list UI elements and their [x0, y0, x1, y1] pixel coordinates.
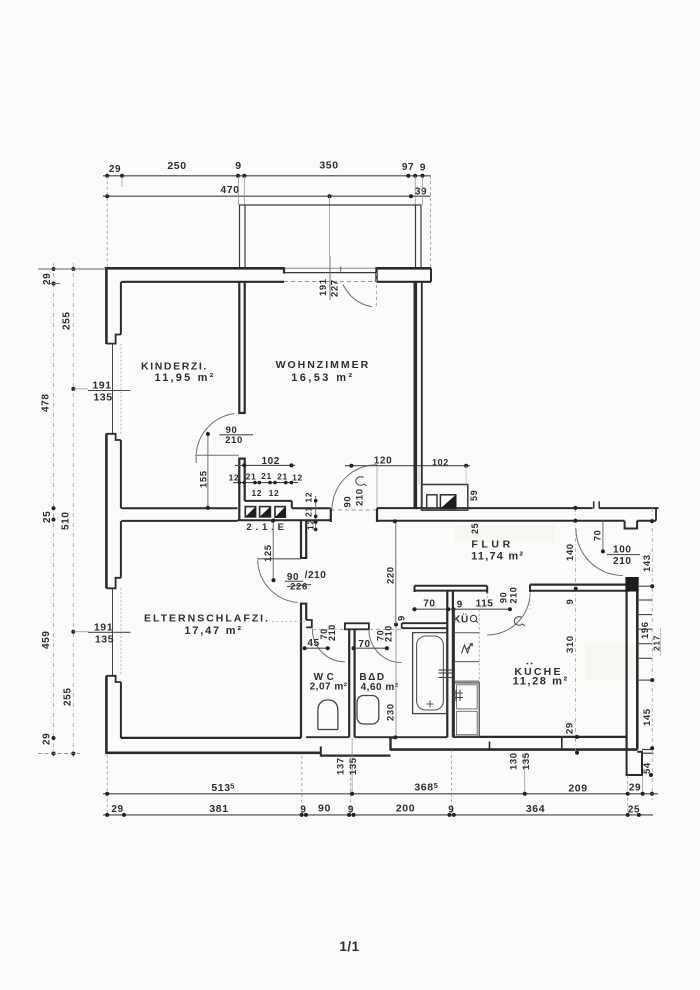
svg-text:70: 70 — [423, 599, 435, 610]
kitchen stove symbol — [462, 645, 471, 654]
bad door swing arc — [369, 630, 402, 663]
eltern window glass line — [112, 588, 114, 676]
balcony door tick — [340, 267, 342, 272]
balcony door threshold — [284, 272, 377, 274]
svg-text:368: 368 — [414, 782, 433, 794]
svg-text:12: 12 — [251, 488, 262, 498]
interior wall kinderzi-eltern upper line — [121, 507, 237, 509]
svg-text:21: 21 — [261, 471, 272, 481]
wc-bad wall T cap — [345, 623, 369, 629]
svg-text:102: 102 — [261, 456, 280, 467]
svg-text:25: 25 — [42, 511, 53, 523]
flur-kueche nook dim line — [412, 608, 512, 610]
kinderzimmer window bottom sill — [106, 434, 121, 440]
svg-text:2,07 m²: 2,07 m² — [310, 682, 348, 693]
svg-text:FLUR: FLUR — [471, 539, 513, 551]
svg-text:11,74 m²: 11,74 m² — [471, 551, 524, 563]
eltern window top sill — [106, 578, 121, 589]
wc door jamb notch — [306, 620, 312, 627]
kinderzi door dim 755 line — [207, 434, 209, 508]
svg-text:310: 310 — [565, 635, 576, 653]
niche right vertical dim — [315, 496, 317, 531]
bad door dashed — [369, 628, 402, 630]
top wall right end cap — [430, 268, 432, 282]
corridor door handle loop — [356, 477, 367, 486]
flur wall upper piece x377-421 — [377, 507, 593, 509]
svg-text:12: 12 — [292, 473, 303, 483]
flur niche T bar — [415, 585, 488, 587]
eltern door swing arc — [258, 561, 298, 603]
svg-text:25: 25 — [628, 805, 640, 816]
svg-text:WOHNZIMMER: WOHNZIMMER — [276, 359, 371, 371]
entry door dim 70 — [602, 521, 604, 552]
bottom step marks under bad — [389, 737, 397, 739]
svg-text:210: 210 — [613, 556, 632, 567]
svg-text:209: 209 — [568, 783, 587, 795]
shaft box at flur — [422, 485, 468, 511]
eltern door lower jamb and wall — [300, 603, 302, 738]
svg-text:220: 220 — [386, 566, 397, 584]
wc bottom inner line — [306, 736, 349, 738]
eltern door opening leaf — [257, 558, 301, 560]
shaft leader lines — [418, 466, 420, 485]
svg-text:54: 54 — [642, 762, 653, 774]
svg-text:9: 9 — [457, 600, 463, 611]
svg-text:137: 137 — [336, 757, 347, 775]
svg-text:97: 97 — [402, 162, 414, 173]
eltern window inner dotted — [120, 588, 122, 676]
svg-text:115: 115 — [476, 599, 494, 610]
top dim connectors — [106, 176, 108, 268]
svg-text:210: 210 — [327, 624, 337, 641]
svg-text:39: 39 — [415, 187, 427, 198]
flur dim 220 vertical — [395, 521, 397, 624]
wc top wall cap left of door is jamb notch; wc door dashed — [312, 628, 345, 630]
svg-text:21: 21 — [246, 472, 257, 482]
corridor door jambs — [330, 508, 332, 522]
svg-text:90: 90 — [318, 803, 331, 815]
svg-text:11,28 m²: 11,28 m² — [513, 676, 569, 688]
svg-text:70: 70 — [593, 530, 603, 541]
kitchen faucet — [452, 692, 463, 694]
svg-text:5: 5 — [230, 782, 235, 791]
svg-text:12: 12 — [304, 492, 314, 503]
svg-text:12: 12 — [229, 473, 240, 483]
eltern window bottom sill — [106, 676, 121, 682]
bottom wall step at BAD east — [389, 738, 391, 751]
right vertical dim line — [651, 508, 653, 800]
svg-text:135: 135 — [348, 757, 359, 775]
svg-text:250: 250 — [167, 160, 186, 172]
svg-text:21: 21 — [304, 506, 314, 517]
kitchen door swing arc — [487, 593, 530, 636]
wohnzimmer right wall thick line — [413, 282, 417, 508]
svg-text:102: 102 — [432, 458, 449, 468]
svg-text:143: 143 — [642, 554, 653, 572]
svg-text:191: 191 — [92, 380, 111, 392]
kitchen counter left edge — [453, 609, 455, 737]
top exterior wall outer line east — [377, 267, 432, 270]
bad bottom inner line — [355, 736, 448, 738]
svg-text:255: 255 — [62, 312, 73, 331]
svg-text:210: 210 — [509, 587, 519, 604]
svg-text:KINDERZI.: KINDERZI. — [141, 361, 208, 373]
corridor door opening threshold — [331, 509, 377, 511]
wohnzimmer right wall thin line — [421, 282, 423, 508]
balcony top railing — [239, 204, 422, 206]
bathtub outer — [413, 633, 447, 714]
bottom wall step at WC — [320, 747, 322, 757]
svg-text:29: 29 — [109, 164, 121, 175]
corridor door leaf line — [376, 465, 378, 509]
balcony left railing — [239, 205, 241, 268]
svg-text:227: 227 — [330, 279, 341, 297]
balcony door swing arc — [343, 285, 372, 307]
kinderzi door open line — [195, 454, 238, 456]
svg-text:140: 140 — [565, 543, 576, 561]
kitchen wall top pillar — [625, 577, 638, 592]
wc door dim line — [304, 647, 331, 649]
shaft inner white square — [427, 495, 437, 509]
niche lower shelf line — [292, 507, 331, 509]
shaft box 1 — [245, 507, 255, 517]
niche top line — [245, 500, 292, 502]
svg-text:25: 25 — [470, 523, 480, 534]
kinderzimmer window top sill — [106, 335, 121, 344]
niche step down — [291, 501, 293, 508]
flur wall lower line with entry recess — [377, 520, 625, 522]
scan shading — [455, 525, 555, 543]
kinderzi right wall lower segment — [238, 458, 240, 521]
svg-text:135: 135 — [93, 392, 112, 404]
label 137 135 rotated — [344, 755, 346, 775]
svg-text:513: 513 — [211, 782, 230, 794]
balcony door centerline — [329, 256, 331, 300]
svg-text:120: 120 — [374, 456, 393, 467]
svg-text:191: 191 — [318, 278, 329, 296]
bottom dim row2 line — [103, 814, 653, 816]
bottom wall small step marks — [489, 742, 491, 751]
node dot at 2TE — [272, 519, 276, 523]
top exterior wall inner line left — [121, 281, 284, 283]
svg-text:470: 470 — [220, 184, 239, 196]
left dim line B — [72, 263, 74, 757]
dim 120 line — [345, 465, 470, 467]
kitchen top wall — [530, 583, 637, 585]
svg-text:9: 9 — [420, 163, 426, 174]
shaft box 2 — [260, 507, 271, 517]
svg-text:4,60 m²: 4,60 m² — [361, 682, 399, 693]
kitchen bottom wall inner line — [453, 736, 626, 738]
eltern door dim 125 — [272, 521, 274, 580]
top exterior wall outer line west — [105, 267, 284, 270]
bathtub inner — [417, 636, 444, 710]
svg-text:230: 230 — [386, 703, 397, 721]
kitchen counter right edge dotted — [478, 609, 480, 737]
stud dim line 2 — [233, 482, 298, 484]
bottom dim connectors — [106, 755, 108, 816]
svg-text:100: 100 — [613, 545, 632, 556]
top exterior wall inner line right — [377, 281, 432, 283]
kinderzi right wall upper segment — [238, 282, 240, 414]
svg-text:/210: /210 — [305, 570, 327, 581]
left wall inner line segments — [120, 282, 122, 335]
bottom exterior wall outer line east — [391, 748, 638, 751]
svg-text:9: 9 — [300, 805, 306, 816]
kitchen right wall bottom block — [627, 749, 642, 776]
vent ticks in flur wall — [593, 501, 595, 508]
svg-text:478: 478 — [41, 394, 52, 413]
svg-text:9: 9 — [448, 805, 454, 816]
svg-text:125: 125 — [263, 544, 274, 562]
svg-text:ELTERNSCHLAFZI.: ELTERNSCHLAFZI. — [144, 613, 270, 625]
svg-text:9: 9 — [348, 805, 354, 816]
interior wall kinderzi-eltern lower line — [121, 520, 237, 522]
svg-text:350: 350 — [319, 160, 338, 172]
svg-text:29: 29 — [629, 783, 641, 794]
svg-text:90: 90 — [343, 496, 354, 508]
eltern right wall upper segment — [300, 520, 302, 560]
bad door dim line — [352, 647, 389, 649]
balcony right railing — [415, 205, 417, 268]
bathtub taps — [439, 669, 453, 671]
svg-text:381: 381 — [209, 803, 228, 815]
top dimension line 1 — [103, 175, 431, 177]
svg-text:29: 29 — [565, 722, 576, 734]
svg-text:9: 9 — [397, 615, 408, 621]
entry dim 140 vertical — [575, 508, 577, 753]
kitchen door leader lines — [486, 592, 488, 609]
svg-text:17,47 m²: 17,47 m² — [184, 625, 242, 637]
svg-text:510: 510 — [61, 512, 72, 531]
entry door swing arc — [576, 529, 623, 576]
bad-kueche divider wall — [446, 591, 448, 738]
wc door swing arc — [312, 630, 345, 662]
kitchen counter dividers — [454, 632, 479, 634]
wc toilet — [318, 700, 338, 730]
svg-text:16,53 m²: 16,53 m² — [291, 372, 354, 384]
svg-text:135: 135 — [95, 634, 114, 646]
kitchen sink unit — [454, 683, 479, 737]
bottom dim row1 line — [103, 793, 658, 795]
wall stub right of kitchen block — [642, 749, 654, 751]
eltern bottom wall inner line — [121, 737, 301, 739]
svg-text:59: 59 — [469, 490, 479, 501]
flur wall right end cap — [655, 508, 657, 521]
svg-text:12: 12 — [269, 488, 280, 498]
bottom wall outer recessed segment under WC-BAD — [321, 754, 391, 756]
bathtub drain cross — [427, 703, 434, 705]
svg-text:145: 145 — [642, 708, 653, 726]
svg-text:90: 90 — [499, 592, 509, 603]
svg-text:210: 210 — [384, 625, 394, 642]
kinderzimmer window glass line — [112, 344, 114, 434]
svg-text:11,95 m²: 11,95 m² — [154, 372, 215, 384]
bad toilet — [357, 696, 379, 725]
svg-text:364: 364 — [526, 803, 545, 815]
svg-text:1/1: 1/1 — [339, 939, 359, 954]
kitchen right wall inner — [625, 592, 627, 749]
bad top wall right piece — [402, 622, 448, 624]
balcony door leaf dashed — [376, 273, 378, 307]
top dimension line 2 — [103, 195, 431, 197]
svg-text:45: 45 — [307, 638, 319, 649]
svg-text:70: 70 — [358, 639, 370, 650]
svg-text:5: 5 — [434, 781, 439, 790]
svg-text:KÜ: KÜ — [453, 613, 469, 626]
right side hatch rungs — [639, 585, 652, 587]
svg-text:255: 255 — [63, 688, 74, 707]
corridor door swing arc — [332, 465, 377, 509]
left horizontal connectors — [38, 268, 106, 270]
svg-text:217: 217 — [652, 635, 662, 651]
kinderzi door swing arc — [196, 414, 234, 455]
bottom exterior wall outer line west — [106, 751, 320, 754]
bad dim 230 rotated — [395, 625, 397, 738]
kitchen door handle loop — [514, 617, 525, 626]
kitchen right wall outer — [636, 577, 639, 750]
right small vertical dim line 217 — [660, 628, 662, 656]
left exterior wall outer line — [105, 267, 108, 344]
svg-text:210: 210 — [355, 488, 366, 506]
svg-text:130: 130 — [509, 752, 520, 770]
balcony door left jamb — [283, 267, 285, 273]
svg-text:29: 29 — [42, 733, 53, 745]
svg-text:9: 9 — [235, 160, 241, 172]
svg-text:29: 29 — [111, 804, 123, 815]
svg-text:196: 196 — [640, 621, 651, 639]
shaft inner half-black square — [440, 495, 455, 509]
svg-text:155: 155 — [199, 470, 210, 488]
shaft box 3 — [275, 507, 285, 518]
svg-text:135: 135 — [521, 752, 532, 770]
top wall line across balcony opening — [284, 267, 377, 269]
svg-text:9: 9 — [565, 599, 576, 605]
svg-text:210: 210 — [225, 435, 243, 446]
left dim line A — [53, 263, 55, 757]
corridor wall bottom line — [238, 519, 331, 521]
svg-text:191: 191 — [94, 622, 113, 634]
wc-bad divider wall — [348, 629, 350, 737]
svg-text:200: 200 — [396, 803, 415, 815]
stud dim 102 line — [235, 464, 295, 466]
kinderzimmer window inner dotted — [120, 344, 122, 434]
balcony door right jamb — [375, 267, 377, 282]
svg-text:459: 459 — [41, 631, 52, 650]
svg-text:21: 21 — [277, 472, 288, 482]
svg-text:226: 226 — [290, 582, 308, 593]
svg-text:2 . 1 . E: 2 . 1 . E — [246, 522, 284, 533]
